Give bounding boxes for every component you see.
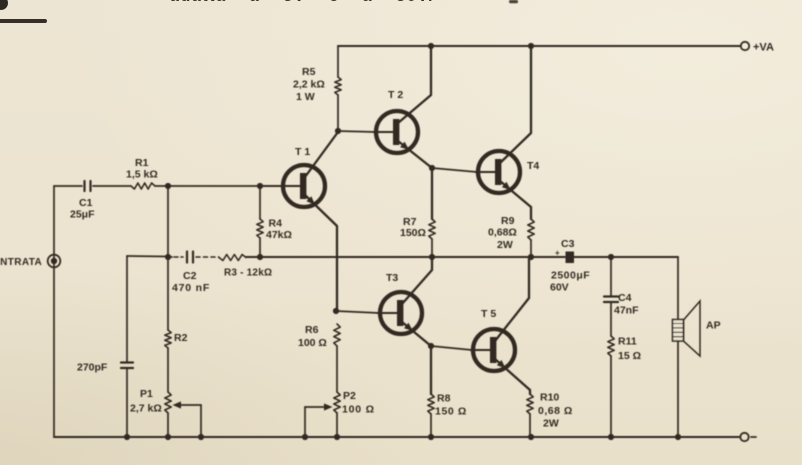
svg-text:R9: R9 bbox=[501, 215, 515, 227]
svg-text:150 Ω: 150 Ω bbox=[435, 406, 467, 418]
svg-text:R11: R11 bbox=[618, 336, 637, 348]
svg-text:0,68 Ω: 0,68 Ω bbox=[538, 405, 573, 417]
svg-text:C3: C3 bbox=[561, 238, 575, 250]
svg-text:+: + bbox=[555, 249, 560, 258]
svg-text:AP: AP bbox=[706, 320, 721, 332]
svg-text:2W: 2W bbox=[497, 239, 513, 251]
svg-text:2W: 2W bbox=[543, 418, 559, 430]
svg-text:100 Ω: 100 Ω bbox=[342, 404, 375, 416]
svg-text:R8: R8 bbox=[437, 393, 451, 405]
svg-text:470 nF: 470 nF bbox=[172, 282, 210, 294]
svg-text:2500μF: 2500μF bbox=[551, 270, 590, 282]
svg-text:+VA: +VA bbox=[753, 42, 774, 54]
svg-text:T 2: T 2 bbox=[388, 89, 403, 101]
svg-text:R4: R4 bbox=[269, 218, 283, 230]
svg-text:R3 - 12kΩ: R3 - 12kΩ bbox=[224, 268, 272, 279]
svg-text:C1: C1 bbox=[79, 197, 93, 209]
svg-text:T4: T4 bbox=[527, 160, 539, 172]
svg-text:P2: P2 bbox=[343, 390, 356, 402]
svg-text:R5: R5 bbox=[302, 66, 316, 78]
svg-text:T 1: T 1 bbox=[295, 146, 310, 158]
svg-text:0,68Ω: 0,68Ω bbox=[488, 227, 517, 239]
svg-text:15 Ω: 15 Ω bbox=[618, 350, 641, 362]
svg-text:47nF: 47nF bbox=[614, 305, 639, 317]
svg-text:C2: C2 bbox=[183, 270, 197, 282]
svg-text:2,2 kΩ: 2,2 kΩ bbox=[293, 79, 325, 91]
svg-text:ENTRATA: ENTRATA bbox=[0, 257, 42, 268]
svg-text:R2: R2 bbox=[174, 332, 188, 344]
svg-text:1 W: 1 W bbox=[296, 91, 315, 103]
svg-text:T3: T3 bbox=[386, 272, 398, 284]
svg-text:R1: R1 bbox=[135, 157, 149, 169]
svg-text:2,7 kΩ: 2,7 kΩ bbox=[130, 403, 162, 415]
svg-text:270pF: 270pF bbox=[77, 362, 108, 374]
svg-text:R6: R6 bbox=[305, 324, 319, 336]
svg-text:R10: R10 bbox=[540, 392, 559, 404]
svg-text:1,5 kΩ: 1,5 kΩ bbox=[126, 169, 158, 181]
svg-text:25μF: 25μF bbox=[70, 209, 95, 221]
svg-text:150Ω: 150Ω bbox=[400, 227, 426, 239]
svg-text:47kΩ: 47kΩ bbox=[266, 229, 292, 241]
svg-text:P1: P1 bbox=[140, 388, 153, 400]
svg-text:T 5: T 5 bbox=[481, 308, 496, 320]
svg-text:100 Ω: 100 Ω bbox=[298, 337, 327, 349]
svg-text:C4: C4 bbox=[618, 292, 632, 304]
svg-text:60V: 60V bbox=[550, 282, 569, 294]
